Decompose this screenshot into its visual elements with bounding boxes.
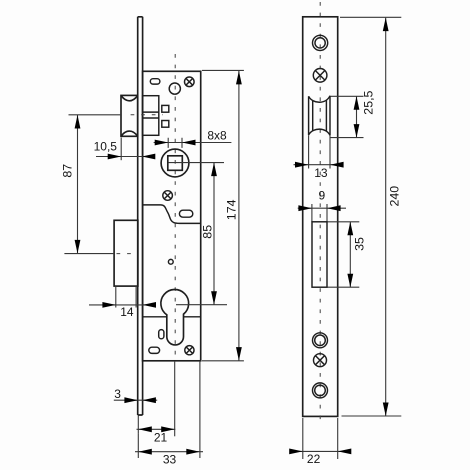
svg-text:9: 9 (319, 188, 326, 202)
dimension 9 (298, 188, 346, 222)
latch bolt tail (143, 96, 159, 136)
spindle hub circle (161, 149, 189, 177)
latch cutout front view (309, 96, 330, 136)
dimension 3 (114, 387, 157, 403)
internal horizontal edge at cylinder (143, 316, 201, 318)
screw U1 top (circle with X) (185, 77, 195, 87)
centerline solid extension below body (174, 361, 176, 436)
svg-text:10,5: 10,5 (94, 140, 118, 154)
faceplate vertical centerline (319, 2, 321, 425)
dimension 14 (89, 302, 156, 319)
dimension 85 (200, 163, 217, 305)
spindle center extension line (168, 162, 224, 164)
euro cylinder profile (161, 289, 189, 344)
dimension 33 (135, 361, 203, 467)
faceplate strip (side view) (138, 17, 143, 415)
svg-text:33: 33 (163, 453, 177, 467)
small square pin upper (162, 105, 169, 112)
top ring hole (313, 35, 328, 50)
internal step S-curve (143, 205, 201, 224)
bottom ring hole (313, 383, 328, 398)
dimension 21 (137, 416, 176, 445)
svg-text:14: 14 (120, 305, 134, 319)
latch horizontal centerline (69, 114, 122, 116)
svg-text:174: 174 (225, 199, 239, 220)
faceplate front rectangle (303, 17, 338, 417)
svg-text:87: 87 (61, 164, 75, 178)
dimension 174 (202, 70, 244, 360)
cylinder slot cutout (312, 222, 327, 287)
deadbolt (114, 220, 138, 286)
latch bolt head (protruding) (121, 95, 138, 136)
vertical oval slot (159, 330, 164, 339)
svg-text:25,5: 25,5 (362, 90, 376, 114)
horizontal oval slot bottom (149, 347, 160, 353)
svg-text:21: 21 (154, 430, 168, 444)
body vertical centerline (174, 54, 176, 361)
svg-text:13: 13 (314, 166, 328, 180)
small pivot circle (168, 259, 173, 264)
deadbolt horizontal centerline (64, 253, 114, 255)
deadbolt step extension lines (116, 286, 136, 307)
spindle square 8x8 (168, 156, 183, 171)
top oval slot (150, 79, 160, 84)
svg-text:35: 35 (353, 237, 367, 251)
svg-text:22: 22 (307, 452, 321, 466)
dimension 8x8 (154, 129, 232, 148)
svg-text:3: 3 (114, 387, 121, 401)
screw U3 bottom (circle with X) (185, 346, 194, 355)
svg-text:8x8: 8x8 (207, 129, 227, 143)
dimension 10,5 (94, 138, 156, 161)
dimension 240 (340, 17, 401, 416)
middle ring hole (313, 333, 328, 348)
screw U2 middle (circle with X) (163, 191, 173, 201)
cylinder center extension line (176, 304, 227, 306)
dimension 87 (61, 115, 81, 253)
internal oval slot (179, 210, 192, 217)
dimension 13 (294, 135, 344, 180)
middle screw (circle with X) (314, 354, 327, 367)
dimension 22 (289, 418, 351, 466)
top screw (circle with X) (313, 69, 327, 83)
lock body case (143, 71, 201, 361)
svg-text:240: 240 (387, 186, 401, 207)
svg-text:85: 85 (200, 225, 214, 239)
dimension 25,5 (331, 90, 376, 137)
dimension 35 (328, 222, 367, 287)
small square pin lower (162, 121, 169, 128)
follower circle (169, 83, 180, 94)
